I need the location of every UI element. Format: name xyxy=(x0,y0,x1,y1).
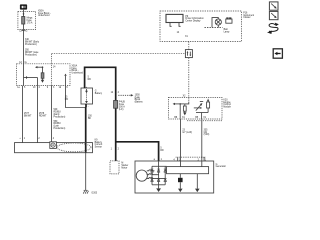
battery polarity and name labels xyxy=(86,86,103,108)
svg-text:Production): Production) xyxy=(54,115,66,118)
dashed LIN wire inside block with label 14 xyxy=(51,54,53,86)
svg-text:Module: Module xyxy=(223,107,231,109)
wire label 5 RD generator xyxy=(160,147,164,151)
hotlink icon: squiggle arrow xyxy=(267,23,279,34)
svg-text:RD: RD xyxy=(88,79,92,81)
svg-text:RD: RD xyxy=(160,150,164,152)
junction pin labels 12 4 xyxy=(111,92,120,94)
starter motor label xyxy=(121,163,128,170)
DIC display P9 xyxy=(166,14,183,26)
L and F pin drops inside generator xyxy=(181,161,202,167)
dashed data drop from cluster to node and node to ECM xyxy=(188,41,190,97)
hotlink icon top-left (black box with white left arrow) xyxy=(20,4,27,9)
battery symbol icon xyxy=(226,18,232,23)
regulator ground xyxy=(195,174,200,192)
sensor ring xyxy=(50,142,57,149)
rotor/stator circle xyxy=(136,170,147,181)
wire ECM to generator L xyxy=(180,119,182,161)
wire label 549 RD/BU early xyxy=(54,109,66,118)
wire label 5 RD xyxy=(88,76,92,80)
wire label 150 BK xyxy=(88,115,93,119)
svg-text:Production): Production) xyxy=(25,43,37,46)
wire 3 (LIN): block to sensor pin 4 xyxy=(51,86,53,143)
cluster pin labels xyxy=(177,32,189,38)
sensor label xyxy=(95,139,103,148)
svg-text:Underhood: Underhood xyxy=(72,72,84,75)
dashed box: starter motor (off-page) xyxy=(110,161,119,174)
instrument cluster name label xyxy=(243,12,254,19)
label: Mega Fuse 175A xyxy=(27,18,33,25)
wire from icon through fuse box 1 down to fuse block underhood xyxy=(23,10,25,64)
voltage regulator bar xyxy=(167,167,209,174)
ECM K20 dashed box xyxy=(169,97,223,119)
ECM connector label X2 xyxy=(183,96,187,98)
svg-text:GY (LAF): GY (LAF) xyxy=(182,131,192,134)
hotlink icon: diagonal arrow box 1 xyxy=(269,2,278,10)
label: X50A Fuse Block - Underhood (top) xyxy=(38,10,51,18)
ECM left motif: arrow, resistor, down arrow xyxy=(173,97,189,119)
busbar arrow and fuse F2 inside block xyxy=(35,66,44,83)
connector tick X2 xyxy=(22,29,25,31)
generator G box xyxy=(135,161,214,193)
svg-text:(LC): (LC) xyxy=(119,109,124,111)
ground G305 xyxy=(83,190,88,193)
hotlink icon: left arrow box xyxy=(273,49,282,58)
svg-text:Production): Production) xyxy=(54,127,66,130)
battery G xyxy=(81,88,93,104)
wire label 15 RD xyxy=(65,97,69,101)
wire label 335 GN xyxy=(204,129,210,136)
mega fuse F1 xyxy=(22,17,25,25)
connector labels at y=63 xyxy=(19,62,27,64)
battery current sensor K9 body xyxy=(15,143,93,153)
ground name label G305 xyxy=(91,193,97,195)
instrument cluster P16 dashed box xyxy=(160,11,242,41)
svg-text:G305: G305 xyxy=(91,193,97,195)
charge indicator lamp xyxy=(212,18,221,28)
svg-text:Lamp: Lamp xyxy=(224,31,230,33)
generator name label G xyxy=(216,164,227,168)
serial data gateway node box xyxy=(185,50,192,58)
fusible link on battery positive cable xyxy=(114,101,118,109)
battery positive cable to junction xyxy=(85,67,116,161)
svg-text:Motor: Motor xyxy=(121,166,127,169)
svg-text:Sensor: Sensor xyxy=(95,146,103,149)
svg-text:Underhood: Underhood xyxy=(38,14,50,17)
wire from fuse to bottom edge xyxy=(37,78,39,86)
hotlink icon: diagonal arrow box 2 xyxy=(269,11,278,19)
wire label 23 GY xyxy=(182,129,192,133)
generator connector dotted bracket and pins xyxy=(176,157,207,161)
label right of fuse block xyxy=(72,65,84,75)
svg-text:BN/WT: BN/WT xyxy=(24,115,32,117)
svg-text:Cluster: Cluster xyxy=(243,16,251,19)
svg-text:(Battery: (Battery xyxy=(135,101,144,104)
wire ECM to generator F xyxy=(201,119,203,161)
wire label X50 RD/BU late xyxy=(54,121,66,130)
terminal arrow at x65 inside block xyxy=(64,74,66,86)
schematic stroke layer xyxy=(15,2,283,195)
svg-text:RD/WT: RD/WT xyxy=(39,115,47,117)
ECM name label K20 xyxy=(223,99,231,108)
wire label 2577 BN/WT xyxy=(24,113,32,117)
DIC display name label xyxy=(185,16,204,23)
svg-text:BK: BK xyxy=(88,118,92,120)
ECM right motif: switch and resistor xyxy=(194,99,210,119)
svg-text:Center Display: Center Display xyxy=(185,20,201,23)
wire 1: block to sensor pin 1 xyxy=(22,86,24,143)
serial data dashed line horizontal xyxy=(52,53,186,55)
svg-text:Production): Production) xyxy=(25,53,37,56)
svg-text:-: - xyxy=(88,105,89,108)
sensor dotted clamp oval xyxy=(57,143,91,152)
generator pin labels xyxy=(154,159,207,161)
starter feed splice labels xyxy=(111,149,120,151)
take-off destination label xyxy=(135,94,144,103)
sensor pin labels xyxy=(19,138,54,140)
dotted bottom segment xyxy=(187,120,222,122)
diode bridge xyxy=(151,161,167,185)
svg-text:(V40): (V40) xyxy=(204,134,210,136)
field diode blob and ground xyxy=(178,174,183,192)
svg-text:175 A: 175 A xyxy=(27,21,33,24)
svg-text:Generator: Generator xyxy=(216,165,227,168)
wire label 340 BN/WT (Early Production) xyxy=(25,39,40,46)
ECM pin labels xyxy=(174,117,206,119)
battery negative wire below sensor xyxy=(85,153,87,191)
bridge ground xyxy=(156,185,161,192)
connector labels at y=30 (12 / X2) xyxy=(19,31,28,33)
dashed box: X50A fuse block - underhood xyxy=(17,64,71,86)
dashed take-off wire to late production feed xyxy=(118,94,133,96)
battery negative cable down through sensor to ground xyxy=(85,104,87,153)
stator windings (three bumpy lines) xyxy=(147,170,165,179)
indicator name label xyxy=(224,28,230,33)
battery cable branch to generator B+ xyxy=(116,142,159,161)
pin labels along block bottom edge xyxy=(17,87,68,89)
wire label 2578 RD/WT xyxy=(39,113,47,117)
dashed box: mega fuse holder xyxy=(18,12,36,30)
wire 2: block to sensor pin 2 xyxy=(37,86,39,143)
indicator sub-line and label xyxy=(205,27,223,29)
wire label 350 RD/WT (Late Production) xyxy=(25,50,39,57)
fusible link label xyxy=(119,102,125,111)
fuse position label 14 xyxy=(53,67,56,69)
wire 4: block to battery negative junction xyxy=(66,86,86,108)
svg-text:Battery: Battery xyxy=(95,92,103,95)
wire through fuse block (left) with branch xyxy=(24,64,38,86)
svg-text:RD: RD xyxy=(65,99,69,101)
